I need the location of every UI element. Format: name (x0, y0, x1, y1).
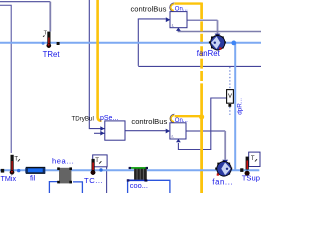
svg-text:pSe...: pSe... (100, 115, 118, 122)
coil heaCoi (57, 167, 72, 183)
sensor TCoiHeaOut (91, 155, 107, 175)
svg-text:dpR...: dpR... (236, 98, 243, 115)
bus yellow main vertical dashed (200, 3, 203, 10)
controlBus connector 2 arc (170, 114, 175, 123)
wire conFanRet output to fanRet (187, 19, 218, 21)
wire TMix.T to left edge (0, 5, 11, 153)
svg-text:T: T (251, 156, 255, 162)
svg-text:r.: r. (172, 23, 175, 28)
svg-text:controlBus: controlBus (131, 5, 167, 14)
controlBus connector 1 arc (170, 3, 175, 12)
svg-text:TSup: TSup (242, 174, 260, 183)
block conFanRet (On...) (166, 12, 187, 31)
wire senRetFlo to conFanRet input (138, 19, 166, 66)
block conFanSup (On...) (166, 123, 186, 143)
svg-text:On...: On... (175, 7, 188, 13)
junction dot after TCoiHeaOut (99, 168, 102, 171)
filter fil (25, 167, 45, 174)
sensor TRet (43, 31, 51, 48)
duct supply (bottom) (0, 169, 259, 171)
svg-text:TC...: TC... (84, 176, 103, 185)
bus yellow branch to controlBus2 (175, 115, 202, 117)
wire weaBus TDryBul down to pSet box (89, 0, 104, 129)
svg-text:T: T (95, 158, 99, 164)
svg-text:TDryBul: TDryBul (72, 116, 94, 123)
wire conFanRet measurement line F (178, 31, 261, 32)
svg-text:fil: fil (30, 173, 36, 182)
wire dashed dp sensor top (229, 67, 231, 89)
water pipe cooling coil (128, 180, 170, 193)
wire TCoiHeaOut drop (106, 167, 108, 193)
water pipe heating coil supply (49, 182, 57, 193)
port square top duct (57, 42, 60, 45)
bus yellow top branch (174, 2, 201, 4)
svg-text:hea...: hea... (52, 157, 74, 166)
svg-text:TRet: TRet (43, 50, 61, 59)
wire line E to right edge (138, 65, 261, 67)
coil cooCoi (127, 167, 148, 182)
svg-text:controlBus: controlBus (131, 117, 167, 126)
weather block pSet (100, 121, 125, 140)
duct return (top) (0, 42, 261, 44)
svg-text:T: T (14, 156, 18, 162)
sensor TMix (10, 155, 20, 175)
fan fanRet (209, 34, 226, 51)
duct vertical right (234, 43, 236, 170)
svg-text:fan...: fan... (212, 177, 233, 186)
wire conFanSup output to fanSup (186, 130, 225, 132)
junction dot after fanRet (231, 41, 236, 46)
wire pSet output to conFanSup (125, 130, 166, 132)
wire dashed dp sensor bottom (229, 107, 231, 115)
junction dot top left (42, 42, 45, 45)
fan fanSup (215, 160, 232, 177)
svg-text:coo...: coo... (130, 181, 148, 190)
bus junction dot (199, 114, 204, 119)
bus yellow line left (to pSet) (98, 0, 102, 121)
svg-text:TMix: TMix (1, 174, 17, 183)
wire TDryBul stub (94, 132, 105, 134)
junction dot after TMix (17, 169, 20, 172)
sensor dpRetFan (227, 90, 234, 107)
wire TRet.T to left edge (0, 1, 50, 3)
port square before TSup (240, 168, 243, 172)
water pipe heating coil return (73, 182, 82, 193)
svg-text:On...: On... (175, 118, 188, 124)
svg-text:r.: r. (172, 134, 175, 139)
wire dpRetFan to conFanSup measurement (178, 98, 226, 150)
svg-text:fanRet: fanRet (197, 49, 221, 58)
bus yellow main vertical solid (200, 117, 203, 193)
port square bottom duct left edge (1, 169, 4, 173)
sensor TSup (245, 152, 260, 175)
